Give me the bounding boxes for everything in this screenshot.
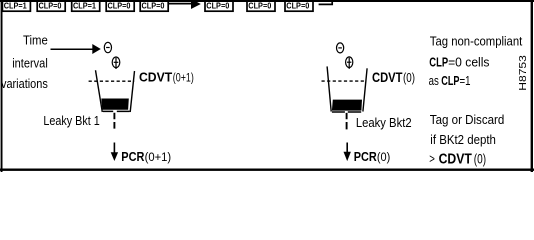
svg-text:=0 cells: =0 cells — [448, 54, 490, 69]
PCR(0+1) output arrow — [111, 143, 118, 162]
svg-text:(0): (0) — [403, 70, 415, 85]
leaky bucket 1 right wall — [130, 71, 134, 112]
svg-text:CLP=1: CLP=1 — [73, 0, 96, 10]
svg-text:CLP: CLP — [441, 73, 459, 88]
node: circled minus (right) — [337, 43, 344, 53]
leaky bucket 2 right wall — [363, 68, 367, 111]
top border line — [0, 0, 534, 2]
svg-text:Leaky Bkt 1: Leaky Bkt 1 — [43, 114, 99, 128]
svg-text:as: as — [429, 73, 439, 88]
bottom border — [0, 169, 534, 171]
svg-text:CDVT: CDVT — [439, 151, 472, 167]
svg-text:CLP=0: CLP=0 — [108, 0, 131, 10]
svg-text:CLP=0: CLP=0 — [206, 0, 229, 10]
trailing line after last cell, steps up to top border — [319, 1, 333, 4]
right border — [531, 0, 533, 172]
leaky bucket 1 left wall — [96, 70, 103, 112]
leaky bucket 2 dashed bottom edge — [332, 111, 361, 113]
svg-text:CLP=1: CLP=1 — [4, 0, 27, 10]
cell box CLP=0 #8 — [285, 0, 313, 11]
svg-text:if BKt2 depth: if BKt2 depth — [430, 132, 496, 147]
svg-text:Time: Time — [23, 33, 48, 48]
svg-text:=1: =1 — [460, 73, 471, 88]
label: Time interval variations — [1, 33, 48, 91]
svg-text:Leaky Bkt2: Leaky Bkt2 — [356, 116, 412, 130]
cell box CLP=0 #5 — [140, 0, 168, 11]
dashed CDVT(0+1) level line — [89, 80, 135, 82]
node: circled minus (left) — [104, 42, 111, 52]
svg-text:interval: interval — [12, 55, 48, 70]
svg-text:H8753: H8753 — [518, 55, 529, 91]
cell box CLP=0 #7 — [247, 0, 275, 11]
node: circled plus (left) — [112, 57, 120, 69]
svg-text:CDVT: CDVT — [372, 70, 403, 85]
svg-text:CDVT: CDVT — [139, 69, 172, 84]
dashed CDVT(0) level line — [322, 80, 367, 82]
left border — [1, 0, 3, 172]
svg-text:Tag or Discard: Tag or Discard — [430, 112, 505, 127]
leaky bucket 2 fill (black content bar) — [332, 100, 362, 111]
svg-text:(0): (0) — [377, 150, 390, 164]
note: tag or discard block — [429, 112, 504, 167]
svg-text:PCR: PCR — [354, 149, 377, 164]
top arrow between cell groups — [169, 0, 201, 9]
svg-text:CLP=0: CLP=0 — [142, 0, 165, 10]
PCR(0) output arrow — [344, 143, 351, 162]
dashed leak line below bucket 1 — [113, 113, 115, 129]
svg-text:CLP=0: CLP=0 — [248, 0, 271, 10]
cell box CLP=1 #1 — [2, 0, 30, 11]
leaky bucket 2 left wall — [327, 66, 331, 111]
note: tag non-compliant block — [429, 33, 523, 88]
leaky bucket 1 dashed bottom edge — [103, 110, 130, 112]
svg-text:CLP=0: CLP=0 — [286, 0, 309, 10]
svg-text:(0+1): (0+1) — [173, 70, 194, 84]
dashed leak line below bucket 2 — [346, 113, 348, 129]
svg-text:(0): (0) — [474, 151, 486, 166]
leaky bucket 1 fill (black content bar) — [101, 99, 129, 110]
cell box CLP=1 #3 — [72, 0, 100, 11]
arrow from label to minus node — [51, 44, 101, 54]
node: circled plus (right) — [346, 57, 353, 69]
svg-text:Tag non-compliant: Tag non-compliant — [430, 33, 523, 48]
svg-text:PCR: PCR — [121, 149, 144, 164]
cell box CLP=0 #4 — [106, 0, 134, 11]
svg-text:CLP=0: CLP=0 — [39, 0, 62, 10]
svg-text:>: > — [429, 151, 435, 166]
svg-text:(0+1): (0+1) — [145, 150, 172, 164]
cell box CLP=0 #2 — [37, 0, 65, 11]
svg-text:variations: variations — [1, 76, 48, 91]
svg-text:CLP: CLP — [429, 54, 448, 69]
cell box CLP=0 #6 — [205, 0, 233, 11]
